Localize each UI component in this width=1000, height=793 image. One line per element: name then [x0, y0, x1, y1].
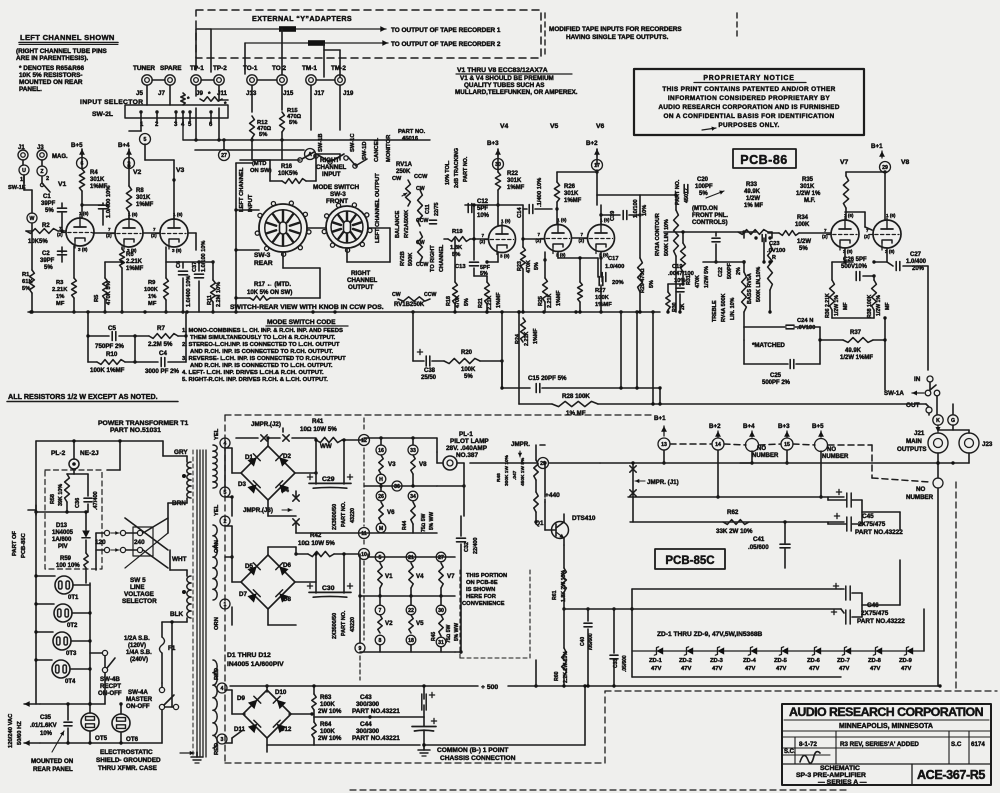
svg-text:D1 THRU D12: D1 THRU D12: [227, 652, 271, 659]
svg-text:2%: 2%: [736, 267, 742, 275]
svg-text:2.21K: 2.21K: [524, 332, 530, 346]
potentiometer RV5A bass: [747, 273, 753, 304]
svg-text:27: 27: [221, 153, 227, 159]
tube V8: [873, 220, 901, 248]
svg-text:B+2: B+2: [709, 423, 721, 430]
svg-text:S.C.: S.C.: [784, 749, 796, 755]
outlet OT4: [52, 660, 70, 678]
svg-text:2X3500/50: 2X3500/50: [332, 613, 338, 639]
svg-text:R3: R3: [56, 280, 64, 286]
svg-text:R28 100K: R28 100K: [562, 393, 590, 400]
svg-text:HAVING SINGLE TAPE OUTPUTS.: HAVING SINGLE TAPE OUTPUTS.: [566, 34, 669, 41]
svg-text:7: 7: [581, 232, 584, 237]
svg-text:2W 10%: 2W 10%: [318, 708, 342, 715]
svg-text:CONVENIENCE: CONVENIENCE: [462, 601, 505, 607]
wires V7 V8 stage: [845, 208, 847, 220]
svg-text:R58: R58: [50, 494, 56, 504]
svg-text:PILOT LAMP: PILOT LAMP: [450, 438, 489, 445]
wires SW-1A: [929, 382, 931, 390]
svg-text:500PF 2%: 500PF 2%: [762, 380, 791, 386]
svg-text:R8: R8: [136, 188, 144, 194]
svg-text:RV4A 500K: RV4A 500K: [721, 293, 727, 322]
resistor R66: [200, 97, 222, 101]
svg-text:1.8K: 1.8K: [450, 245, 463, 251]
svg-text:CANCEL: CANCEL: [374, 137, 380, 162]
resistor R23 470K: [521, 247, 526, 269]
svg-text:D6: D6: [283, 562, 291, 569]
svg-text:H: H: [379, 477, 383, 483]
svg-text:V4: V4: [500, 123, 509, 130]
svg-text:IN4005 1A/600PIV: IN4005 1A/600PIV: [227, 661, 284, 668]
svg-text:LEFT CHANNEL: LEFT CHANNEL: [239, 167, 245, 212]
label part no 45017: [675, 179, 681, 205]
svg-text:5: 5: [144, 137, 147, 143]
transformer primary WHT-BLK: [187, 576, 191, 583]
svg-text:500V10%: 500V10%: [841, 264, 868, 270]
resistor R59 100: [84, 553, 88, 568]
svg-text:300K 1W 10%: 300K 1W 10%: [504, 454, 510, 486]
svg-text:75Ω 5W: 75Ω 5W: [421, 513, 427, 532]
svg-text:5%: 5%: [699, 191, 708, 197]
svg-text:.05/600: .05/600: [622, 655, 628, 672]
svg-text:YEL: YEL: [214, 428, 220, 440]
dashed box regulator: [45, 470, 102, 569]
svg-text:47V: 47V: [870, 666, 880, 672]
capacitor C25 500PF: [789, 360, 791, 369]
svg-text:V2: V2: [385, 620, 393, 627]
svg-text:C24 N: C24 N: [797, 318, 813, 324]
wire B+2 drop: [717, 450, 719, 497]
svg-text:SW-1C: SW-1C: [350, 133, 356, 152]
svg-text:2K: 2K: [680, 303, 686, 310]
resistor R5 470K: [103, 278, 108, 299]
svg-text:1/2W: 1/2W: [746, 196, 760, 202]
svg-text:TO OUTPUT OF TAPE RECORDER 1: TO OUTPUT OF TAPE RECORDER 1: [391, 27, 501, 34]
wire mid rail 609: [632, 608, 841, 610]
svg-text:21: 21: [408, 555, 414, 561]
svg-text:3 (8): 3 (8): [172, 248, 182, 253]
svg-text:C38: C38: [424, 368, 436, 374]
resistor R9 100K: [164, 278, 169, 300]
svg-text:R26: R26: [564, 184, 576, 190]
svg-text:PANEL.: PANEL.: [19, 86, 42, 93]
svg-text:OUTPUT: OUTPUT: [348, 284, 374, 291]
svg-text:R17 ← (MTD.: R17 ← (MTD.: [254, 282, 291, 288]
label part of PCB-85C: [12, 531, 18, 556]
svg-text:B+5: B+5: [71, 142, 83, 149]
svg-text:R19: R19: [452, 229, 463, 235]
svg-text:V8: V8: [901, 159, 910, 166]
svg-text:V4: V4: [416, 573, 424, 580]
svg-text:QUALITY TUBES SUCH AS: QUALITY TUBES SUCH AS: [464, 82, 544, 89]
svg-text:V1: V1: [58, 181, 67, 188]
svg-text:CCW: CCW: [416, 218, 428, 224]
svg-text:BLK: BLK: [170, 611, 184, 618]
svg-text:3. REVERSE- L.CH. INP. IS CONN: 3. REVERSE- L.CH. INP. IS CONNECTED TO R…: [182, 356, 346, 362]
capacitor C36 .47/400: [75, 498, 81, 508]
svg-text:C15 20PF 5%: C15 20PF 5%: [528, 375, 567, 382]
svg-text:LEFT CHANNEL SHOWN: LEFT CHANNEL SHOWN: [20, 33, 115, 42]
svg-text:470K: 470K: [695, 275, 701, 288]
svg-text:SW-2L: SW-2L: [92, 111, 113, 118]
svg-text:.47/400: .47/400: [93, 491, 99, 510]
svg-text:R6: R6: [126, 252, 134, 258]
capacitor C29 2x3500/50: [307, 476, 312, 478]
title row lines: [782, 730, 991, 732]
svg-text:NUMBER: NUMBER: [752, 453, 779, 459]
svg-text:C43: C43: [360, 694, 372, 701]
node W: [27, 213, 37, 223]
svg-text:R45: R45: [431, 632, 437, 641]
svg-text:V1 THRU V8 ECC83/12AX7A: V1 THRU V8 ECC83/12AX7A: [457, 67, 548, 74]
svg-text:47V: 47V: [839, 666, 849, 672]
node 27 top: [219, 150, 230, 161]
svg-text:MASTER: MASTER: [126, 696, 153, 703]
svg-text:R25: R25: [538, 296, 544, 306]
svg-text:FRONT PNL.: FRONT PNL.: [692, 213, 728, 219]
svg-text:PIV: PIV: [58, 544, 68, 550]
svg-text:PART NO.43221: PART NO.43221: [352, 708, 400, 715]
svg-text:C20: C20: [697, 177, 709, 183]
capacitor C2 39PF: [58, 250, 67, 252]
svg-text:9: 9: [359, 646, 362, 652]
svg-text:100K: 100K: [461, 367, 476, 373]
svg-text:SW-4B: SW-4B: [100, 676, 120, 683]
svg-text:29: 29: [882, 165, 888, 171]
capacitor C22 500PF: [718, 267, 724, 277]
svg-text:ON A CONFIDENTIAL BASIS FOR ID: ON A CONFIDENTIAL BASIS FOR IDENTIFICATI…: [663, 113, 834, 120]
svg-text:C37: C37: [192, 262, 198, 272]
resistor R27 100K: [578, 282, 583, 302]
svg-text:120/240 VAC: 120/240 VAC: [8, 713, 14, 748]
svg-text:RV2B: RV2B: [400, 251, 406, 266]
svg-text:301K: 301K: [136, 195, 151, 201]
svg-text:2W 10%: 2W 10%: [318, 735, 342, 742]
svg-text:R9: R9: [148, 280, 156, 286]
svg-text:OUT: OUT: [906, 402, 920, 409]
svg-text:20%: 20%: [612, 280, 624, 286]
resistor R60 2.2K: [562, 648, 567, 676]
svg-text:ORN: ORN: [214, 617, 220, 630]
svg-text:NE-2J: NE-2J: [80, 450, 99, 457]
svg-text:R61: R61: [552, 590, 558, 600]
svg-text:ZD-8: ZD-8: [868, 658, 882, 664]
svg-text:MAIN: MAIN: [906, 438, 922, 445]
voltage selector X wires: [126, 532, 137, 534]
svg-text:39PF: 39PF: [40, 258, 55, 264]
transformer secondary ORN taps: [213, 525, 217, 536]
svg-text:ZD-5: ZD-5: [774, 658, 788, 664]
resistor R64 100K: [312, 722, 316, 738]
svg-text:28V. .040AMP: 28V. .040AMP: [446, 445, 488, 452]
svg-text:R21: R21: [478, 298, 484, 308]
svg-text:13: 13: [661, 442, 667, 448]
svg-text:18: 18: [408, 638, 414, 644]
dashed PCB edge through pads: [363, 418, 365, 432]
svg-text:R23: R23: [517, 261, 523, 271]
tube V4: [489, 226, 516, 253]
svg-text:D5: D5: [245, 563, 253, 570]
svg-text:5%: 5%: [289, 120, 297, 126]
svg-text:R4: R4: [90, 170, 98, 176]
svg-text:1%MF: 1%MF: [126, 266, 144, 272]
svg-text:PROPRIETARY NOTICE: PROPRIETARY NOTICE: [703, 75, 794, 82]
svg-text:1%MF: 1%MF: [564, 198, 582, 204]
proprietary notice box: [634, 69, 864, 135]
capacitor C39: [610, 211, 616, 221]
svg-text:47V: 47V: [745, 666, 755, 672]
svg-text:0T1: 0T1: [68, 595, 79, 601]
svg-text:D9: D9: [237, 695, 245, 702]
input selector switch box: [125, 105, 228, 118]
svg-text:HERE FOR: HERE FOR: [466, 594, 497, 600]
svg-text:5%: 5%: [45, 208, 54, 214]
title signature: [800, 752, 820, 764]
svg-text:C22: C22: [718, 267, 724, 277]
svg-text:5%: 5%: [259, 132, 267, 138]
svg-text:R18: R18: [446, 296, 452, 306]
svg-text:R42: R42: [310, 532, 322, 539]
svg-text:47V: 47V: [809, 666, 819, 672]
resistor R12 470 5%: [250, 116, 255, 138]
zener string: [632, 650, 924, 652]
svg-text:NO.387: NO.387: [456, 452, 478, 459]
svg-text:1.0/400: 1.0/400: [605, 264, 624, 270]
svg-text:2X75/475: 2X75/475: [861, 610, 889, 617]
svg-text:C25: C25: [770, 373, 782, 379]
capacitor C6 1.0/400: [179, 270, 188, 272]
svg-text:G: G: [951, 418, 955, 424]
svg-text:C39: C39: [610, 211, 616, 221]
svg-text:SW-3: SW-3: [330, 191, 346, 198]
outlet OT1: [55, 576, 73, 594]
wire B+4 drop: [751, 451, 753, 463]
svg-text:5%: 5%: [464, 374, 473, 380]
svg-text:750PF 2%: 750PF 2%: [95, 343, 124, 350]
svg-text:EXTERNAL “Y”ADAPTERS: EXTERNAL “Y”ADAPTERS: [252, 14, 352, 23]
svg-text:1%MF: 1%MF: [595, 302, 612, 308]
potentiometer RV3A contour: [655, 213, 661, 256]
wire B- return: [424, 744, 585, 746]
svg-text:(2): (2): [57, 232, 63, 237]
resistor R11 2.2M: [211, 280, 216, 302]
resistor R29 470: [638, 258, 643, 292]
svg-text:300/300: 300/300: [356, 728, 380, 735]
svg-text:7: 7: [538, 232, 541, 237]
svg-text:ON-OFF: ON-OFF: [126, 703, 150, 710]
AC line arrows: [24, 703, 40, 705]
svg-text:1.0/400 10%: 1.0/400 10%: [106, 185, 112, 218]
svg-text:V1: V1: [385, 573, 393, 580]
svg-text:(120V): (120V): [128, 643, 146, 649]
svg-text:R36 2.21K: R36 2.21K: [825, 293, 831, 318]
svg-text:TO OUTPUT OF TAPE RECORDER 2: TO OUTPUT OF TAPE RECORDER 2: [391, 41, 501, 48]
svg-text:2X3500/50: 2X3500/50: [332, 504, 338, 530]
svg-text:C45: C45: [862, 513, 874, 520]
wire B+5 drop: [820, 451, 822, 497]
svg-text:2: 2: [46, 176, 49, 182]
svg-text:470K: 470K: [526, 260, 532, 273]
svg-text:PART NO.43222: PART NO.43222: [855, 529, 903, 536]
svg-text:CCW: CCW: [414, 174, 428, 180]
svg-text:1/2W 1%: 1/2W 1%: [796, 191, 821, 197]
svg-text:J21: J21: [914, 430, 925, 437]
resistor R22 301K: [495, 172, 500, 190]
transformer core: [196, 450, 198, 757]
svg-text:(2): (2): [822, 234, 828, 239]
svg-text:10Ω 10W 5%: 10Ω 10W 5%: [300, 426, 337, 433]
svg-text:C35: C35: [40, 715, 52, 721]
svg-text:10%: 10%: [40, 731, 53, 737]
dashed box external Y adapters: [196, 10, 541, 58]
svg-text:ZD-2: ZD-2: [679, 658, 692, 664]
svg-text:W: W: [30, 216, 35, 222]
svg-text:CHANNEL: CHANNEL: [316, 164, 346, 171]
node no number right: [933, 478, 943, 488]
svg-text:CW: CW: [416, 186, 425, 192]
svg-text:C30: C30: [322, 585, 335, 592]
svg-text:+ 500: + 500: [481, 684, 498, 691]
svg-text:TO-1: TO-1: [243, 65, 258, 72]
svg-text:INPUT: INPUT: [322, 171, 341, 178]
svg-text:(RIGHT CHANNEL TUBE PINS: (RIGHT CHANNEL TUBE PINS: [16, 48, 108, 55]
wires tone network verticals: [769, 290, 771, 312]
svg-text:V5: V5: [416, 620, 424, 627]
svg-text:ELECTROSTATIC: ELECTROSTATIC: [100, 749, 153, 756]
svg-text:TUNER: TUNER: [133, 65, 155, 72]
svg-text:F1: F1: [168, 645, 176, 652]
svg-text:VOLTAGE: VOLTAGE: [124, 591, 155, 598]
title block outer: [782, 704, 991, 785]
svg-text:LINE: LINE: [130, 584, 145, 591]
svg-text:PART NO.43222: PART NO.43222: [857, 618, 905, 625]
svg-text:10K 5% RESISTORS-: 10K 5% RESISTORS-: [19, 72, 82, 79]
svg-text:5PF: 5PF: [477, 206, 488, 212]
svg-text:V7: V7: [840, 159, 849, 166]
svg-text:C40: C40: [580, 637, 586, 646]
svg-text:0T3: 0T3: [66, 651, 77, 657]
svg-text:R44: R44: [402, 521, 408, 530]
svg-text:OT6: OT6: [126, 736, 139, 743]
svg-text:IS SHOWN: IS SHOWN: [466, 587, 495, 593]
svg-text:* DENOTES R65&R66: * DENOTES R65&R66: [19, 65, 84, 72]
svg-text:39PF: 39PF: [41, 201, 56, 207]
svg-text:43220: 43220: [350, 617, 356, 632]
svg-text:1%: 1%: [148, 294, 156, 300]
svg-text:PART NO.43221: PART NO.43221: [352, 735, 400, 742]
svg-text:7: 7: [379, 608, 382, 614]
capacitor C32 22/400: [457, 537, 466, 539]
svg-text:1%MF: 1%MF: [496, 292, 502, 308]
svg-text:R2: R2: [42, 223, 50, 229]
node 10: [359, 549, 370, 560]
svg-text:301K: 301K: [800, 184, 815, 190]
svg-text:R30: R30: [672, 302, 678, 312]
svg-text:2.2M 5%: 2.2M 5%: [148, 341, 173, 348]
svg-text:75Ω 5W: 75Ω 5W: [446, 624, 452, 643]
lamp OT5: [81, 713, 99, 731]
svg-text:CCW: CCW: [416, 262, 428, 268]
wires bus to C15 network: [620, 312, 622, 388]
svg-text:REAR: REAR: [254, 260, 273, 267]
svg-text:PCB-86: PCB-86: [740, 153, 787, 167]
svg-text:D10: D10: [275, 689, 287, 696]
svg-text:V7: V7: [447, 573, 455, 580]
svg-text:CCW: CCW: [424, 292, 436, 298]
svg-text:100K: 100K: [595, 295, 610, 301]
svg-text:33K 2W 10%: 33K 2W 10%: [716, 528, 753, 535]
svg-text:3 (8): 3 (8): [78, 247, 88, 252]
svg-text:V6: V6: [596, 123, 605, 130]
svg-text:R60: R60: [554, 671, 560, 681]
svg-text:/05/600: /05/600: [588, 633, 594, 650]
wire Y adapter drops: [210, 29, 212, 72]
svg-text:LEFT CHANNEL OUTPUT: LEFT CHANNEL OUTPUT: [375, 173, 381, 243]
wire B+1 drop: [663, 450, 665, 463]
svg-text:YEL: YEL: [214, 504, 220, 516]
svg-text:1A/600: 1A/600: [52, 537, 72, 543]
wire tape out 1: [211, 28, 386, 30]
svg-text:14: 14: [715, 442, 721, 448]
resistor R15 470 5%: [280, 112, 285, 132]
svg-text:PART NO.51031: PART NO.51031: [110, 427, 161, 434]
svg-text:30: 30: [438, 608, 444, 614]
svg-text:B+2: B+2: [586, 140, 598, 147]
heater bank V1 V4 V7: [367, 554, 369, 557]
svg-text:1/2W 1%: 1/2W 1%: [834, 295, 840, 316]
svg-text:33: 33: [410, 448, 416, 454]
svg-text:3000 PF 2%: 3000 PF 2%: [145, 368, 180, 375]
svg-text:ACE-367-R5: ACE-367-R5: [917, 768, 985, 782]
svg-text:31: 31: [438, 640, 444, 646]
svg-text:NO: NO: [916, 486, 925, 493]
svg-text:J15: J15: [283, 90, 294, 97]
svg-text:R63: R63: [320, 694, 332, 701]
svg-text:PART OF: PART OF: [12, 531, 18, 556]
node bass junctions: [768, 236, 771, 239]
svg-text:47V: 47V: [776, 666, 786, 672]
node 12: [359, 435, 370, 446]
svg-text:SPARE: SPARE: [160, 65, 182, 72]
svg-text:R10: R10: [106, 351, 118, 358]
capacitor C38 25/50: [412, 312, 414, 361]
svg-text:TM-1: TM-1: [302, 65, 317, 72]
tube V6: [588, 225, 615, 252]
svg-text:B+3: B+3: [487, 140, 499, 147]
svg-text:6174: 6174: [971, 741, 985, 748]
svg-text:10K5%: 10K5%: [278, 171, 298, 177]
wires outlets: [35, 512, 37, 704]
svg-text:49.9K: 49.9K: [845, 348, 862, 354]
svg-text:MF: MF: [843, 303, 849, 311]
svg-text:5%: 5%: [22, 286, 30, 292]
svg-text:C41: C41: [753, 536, 765, 543]
tube V1: [66, 218, 94, 246]
svg-text:R59: R59: [60, 556, 72, 562]
svg-text:SHIELD- GROUNDED: SHIELD- GROUNDED: [96, 757, 161, 764]
svg-text:8-1-72: 8-1-72: [799, 741, 817, 748]
svg-text:4: 4: [221, 686, 224, 692]
svg-text:22: 22: [408, 608, 414, 614]
svg-text:PART NO.: PART NO.: [398, 129, 426, 135]
dashed B+ interconnect: [670, 443, 712, 445]
svg-text:MODE SWITCH CODE: MODE SWITCH CODE: [267, 319, 336, 326]
bridge rectifier D9-D12: [243, 690, 291, 738]
svg-text:INFORMATION CONSIDERED PROPRIE: INFORMATION CONSIDERED PROPRIETARY BY: [668, 95, 831, 102]
svg-text:1/2A S.B.: 1/2A S.B.: [124, 636, 150, 642]
svg-text:1N4005: 1N4005: [52, 530, 74, 536]
svg-text:12: 12: [361, 438, 367, 444]
